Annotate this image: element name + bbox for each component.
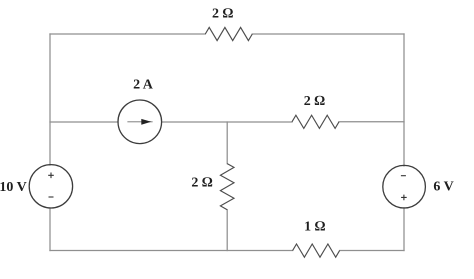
svg-text:1 Ω: 1 Ω <box>304 220 326 235</box>
svg-text:6 V: 6 V <box>433 180 453 195</box>
svg-text:2 A: 2 A <box>133 78 154 93</box>
svg-text:2 Ω: 2 Ω <box>212 7 234 22</box>
svg-text:10 V: 10 V <box>0 180 27 195</box>
svg-text:2 Ω: 2 Ω <box>304 94 326 109</box>
svg-text:2 Ω: 2 Ω <box>191 175 213 190</box>
